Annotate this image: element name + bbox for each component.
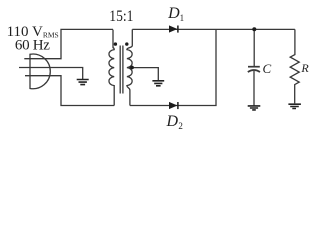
svg-text:C: C	[263, 61, 272, 76]
wire center tap	[129, 68, 159, 81]
capacitor C top lead	[253, 29, 255, 66]
svg-text:R: R	[300, 61, 309, 75]
diode D1 triangle	[169, 25, 177, 32]
diode D1 cathode bar	[177, 26, 179, 33]
wire secondary bottom rail through D2 up to top rail	[130, 29, 216, 105]
svg-text:1: 1	[180, 13, 185, 23]
wire secondary top rail to resistor	[132, 28, 295, 30]
capacitor C straight plate	[248, 66, 260, 68]
svg-text:D: D	[166, 113, 179, 130]
ground plug chassis	[77, 80, 89, 85]
dot secondary polarity	[125, 42, 128, 45]
dot center tap junction	[130, 66, 134, 70]
transformer T1 primary winding	[109, 30, 114, 106]
diode D2 cathode bar	[177, 102, 179, 109]
ground center tap	[152, 81, 164, 86]
capacitor C curved plate	[248, 70, 260, 72]
svg-text:60 Hz: 60 Hz	[15, 37, 50, 53]
wire plug ground lead	[19, 68, 83, 80]
svg-text:D: D	[167, 5, 180, 22]
dot capacitor junction	[252, 27, 256, 31]
wire top rail primary	[24, 29, 113, 58]
transformer T1 core	[120, 46, 123, 94]
diode D2 triangle	[169, 102, 177, 109]
ground capacitor	[248, 106, 261, 110]
ac plug body	[30, 54, 50, 89]
resistor R leads and zigzag	[290, 29, 299, 103]
wire bottom rail primary	[25, 76, 114, 106]
svg-text:15:1: 15:1	[109, 8, 133, 25]
ground resistor	[288, 104, 301, 108]
capacitor C bottom lead	[253, 71, 255, 106]
transformer T1 secondary winding	[127, 29, 132, 105]
dot primary polarity	[114, 42, 117, 45]
svg-text:2: 2	[178, 121, 183, 131]
